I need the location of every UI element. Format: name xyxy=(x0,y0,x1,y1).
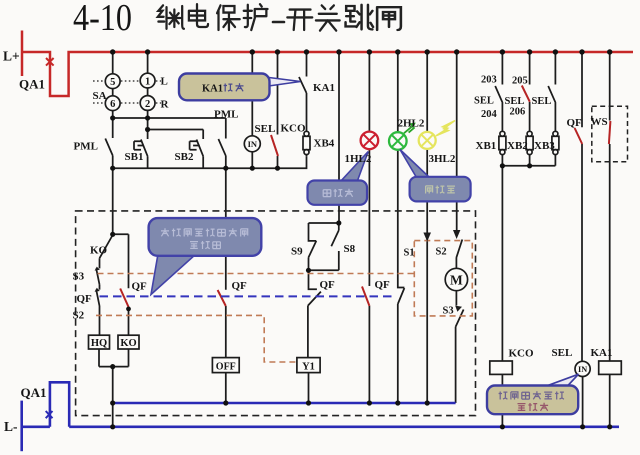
svg-text:2: 2 xyxy=(145,99,150,110)
svg-text:XB3: XB3 xyxy=(534,140,555,152)
svg-text:SB2: SB2 xyxy=(175,151,194,163)
svg-text:5: 5 xyxy=(110,77,115,88)
svg-text:HQ: HQ xyxy=(91,338,107,349)
svg-text:S9: S9 xyxy=(291,246,303,258)
svg-text:KO: KO xyxy=(120,338,136,349)
svg-text:S3: S3 xyxy=(443,306,454,317)
svg-text:PML: PML xyxy=(74,141,98,153)
svg-text:QF: QF xyxy=(567,117,583,129)
svg-text:XB4: XB4 xyxy=(314,138,335,150)
svg-text:SB1: SB1 xyxy=(125,151,144,163)
svg-text:SEL: SEL xyxy=(552,347,573,359)
svg-text:XB2: XB2 xyxy=(507,140,528,152)
svg-text:SEL: SEL xyxy=(255,123,276,135)
svg-text:203: 203 xyxy=(481,75,497,86)
svg-text:S2: S2 xyxy=(436,247,447,258)
svg-text:KCO: KCO xyxy=(281,123,307,135)
svg-text:3HL2: 3HL2 xyxy=(429,153,456,165)
svg-text:205: 205 xyxy=(512,76,528,87)
svg-text:L-: L- xyxy=(4,419,18,434)
svg-text:IN: IN xyxy=(578,365,587,374)
svg-text:L: L xyxy=(161,76,168,88)
svg-text:6: 6 xyxy=(110,99,115,110)
svg-text:KA1: KA1 xyxy=(202,84,223,95)
svg-text:2HL2: 2HL2 xyxy=(398,118,425,130)
svg-text:206: 206 xyxy=(510,107,526,118)
svg-text:QF: QF xyxy=(232,280,248,292)
svg-text:KO: KO xyxy=(90,245,108,257)
svg-text:SEL: SEL xyxy=(505,96,525,107)
svg-text:SEL: SEL xyxy=(532,96,552,107)
svg-text:204: 204 xyxy=(481,109,498,120)
svg-text:S3: S3 xyxy=(73,271,85,283)
svg-text:1: 1 xyxy=(145,76,150,87)
svg-text:M: M xyxy=(450,273,463,288)
svg-text:PML: PML xyxy=(214,109,238,121)
svg-text:S1: S1 xyxy=(404,248,415,259)
svg-text:S2: S2 xyxy=(73,310,85,322)
svg-text:QA1: QA1 xyxy=(19,77,45,92)
svg-text:S8: S8 xyxy=(344,243,356,255)
svg-text:4-10: 4-10 xyxy=(73,0,132,39)
svg-text:SEL: SEL xyxy=(474,96,494,107)
svg-text:Y1: Y1 xyxy=(302,361,315,372)
svg-text:QA1: QA1 xyxy=(21,385,47,400)
svg-text:R: R xyxy=(161,99,170,111)
svg-text:WS: WS xyxy=(591,116,608,128)
svg-text:SA: SA xyxy=(93,90,107,102)
svg-text:IN: IN xyxy=(248,139,258,149)
svg-text:QF: QF xyxy=(77,293,93,305)
svg-text:KCO: KCO xyxy=(509,348,535,360)
svg-text:KA1: KA1 xyxy=(591,347,613,359)
svg-text:XB1: XB1 xyxy=(476,140,497,152)
svg-text:OFF: OFF xyxy=(216,361,236,372)
svg-text:KA1: KA1 xyxy=(313,82,335,94)
svg-text:QF: QF xyxy=(132,281,148,293)
svg-text:QF: QF xyxy=(375,279,391,291)
svg-text:1HL2: 1HL2 xyxy=(345,153,372,165)
svg-text:L+: L+ xyxy=(3,49,20,64)
svg-text:QF: QF xyxy=(320,279,336,291)
